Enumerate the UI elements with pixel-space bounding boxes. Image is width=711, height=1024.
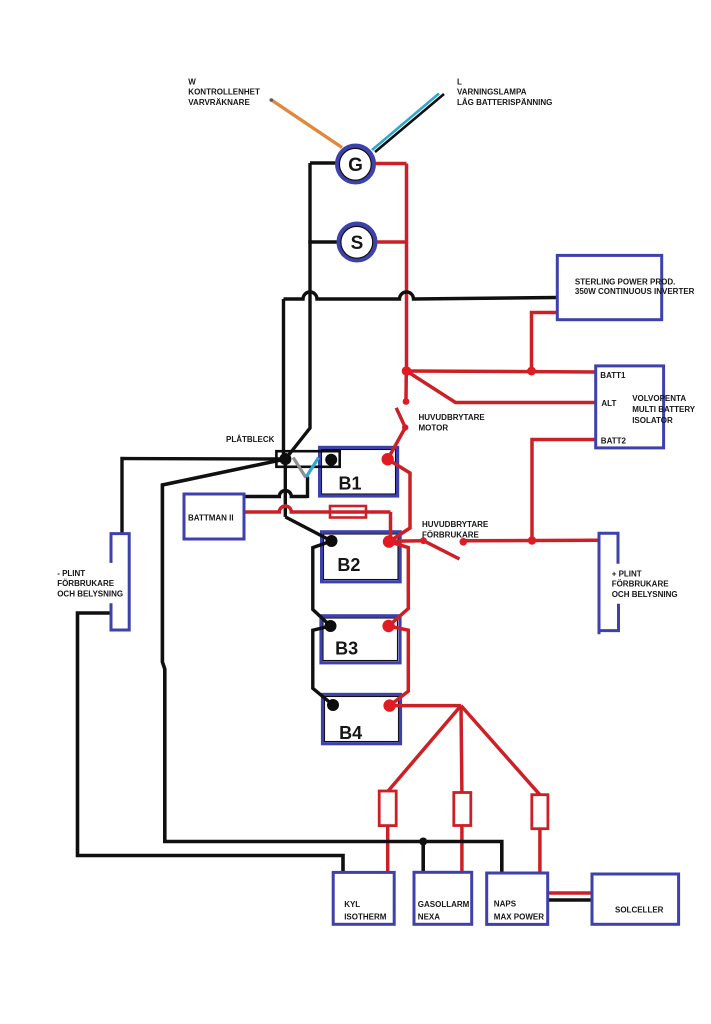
generator G circle [337, 146, 373, 182]
battery B2 box [324, 534, 399, 580]
node blade bend [402, 424, 408, 430]
svg-text:KONTROLLENHET: KONTROLLENHET [188, 88, 260, 97]
wire red BATT2 down to consumer line [532, 440, 596, 541]
wire red B1 plus chain to B2 plus [388, 459, 410, 541]
svg-text:B1: B1 [339, 474, 362, 494]
wire red diagonal to ALT [407, 371, 597, 403]
wire black drop to gasollarm [421, 842, 425, 874]
wire black horizontal to inverter with two hops [284, 292, 558, 299]
svg-text:W: W [188, 77, 196, 86]
terminal dot B4 plus [383, 699, 395, 711]
wire red S right [376, 240, 407, 244]
svg-text:STERLING POWER PROD.: STERLING POWER PROD. [575, 277, 675, 286]
terminal dot B2 plus [383, 535, 395, 547]
svg-text:BATTMAN II: BATTMAN II [188, 514, 234, 523]
wire red B2 plus chain to B3 plus [389, 542, 409, 626]
svg-text:VOLVOPENTA: VOLVOPENTA [632, 394, 686, 403]
node fixed contact motor switch [403, 398, 410, 405]
terminal dot plate left [279, 453, 291, 465]
terminal dot B3 minus [325, 620, 337, 632]
wire black G left to vertical [310, 161, 336, 164]
terminal dot B4 minus [327, 699, 339, 711]
junction dot red inverter drop [527, 367, 536, 376]
terminal dot B3 plus [382, 620, 394, 632]
wire black S left [308, 240, 338, 243]
svg-text:SOLCELLER: SOLCELLER [615, 906, 664, 915]
wire red G right [375, 162, 407, 166]
wire black B3 minus chain to B4 minus [313, 626, 333, 705]
wire red B2 plus to consumer switch [389, 539, 424, 543]
wire red battman to fuse with hop [244, 506, 391, 512]
wire black long left vertical to naps [162, 459, 501, 873]
wire red fan to fuse 1 [388, 706, 461, 792]
svg-text:KYL: KYL [344, 900, 360, 909]
svg-text:B3: B3 [335, 639, 358, 659]
isolator U1 box [596, 366, 664, 448]
svg-text:ALT: ALT [601, 399, 616, 408]
sensor S circle [339, 224, 375, 260]
node switch pivot [420, 537, 427, 544]
svg-text:OCH BELYSNING: OCH BELYSNING [57, 590, 123, 599]
fuse F2 [379, 791, 396, 826]
svg-text:LÅG BATTERISPÄNNING: LÅG BATTERISPÄNNING [457, 98, 552, 107]
plus plint symbol [599, 533, 619, 634]
battman box [184, 494, 244, 539]
wire red fuse line down to B2 plus [389, 512, 393, 541]
wire red fan to fuse 2 [459, 706, 463, 793]
plate PLATBLECK rectangle [276, 451, 339, 467]
black wire varningslampa [375, 94, 444, 152]
wire red B3 plus chain to B4 plus [389, 626, 409, 706]
wire black stub up to blade tip [306, 477, 309, 499]
svg-text:VARNINGSLAMPA: VARNINGSLAMPA [457, 88, 527, 97]
wire black B2 minus chain to B3 minus [313, 541, 332, 626]
svg-text:350W CONTINUOUS INVERTER: 350W CONTINUOUS INVERTER [575, 287, 695, 296]
wire red stub below junction [404, 371, 408, 399]
wire black vertical from G down then diagonal to plate terminal [286, 163, 311, 459]
minus plint symbol [111, 534, 129, 630]
svg-text:ISOTHERM: ISOTHERM [344, 913, 387, 922]
cyan wire varningslampa [372, 94, 439, 151]
svg-text:OCH BELYSNING: OCH BELYSNING [612, 590, 678, 599]
fuse F1 battman line [330, 506, 366, 518]
junction dot red batt2 line [528, 536, 536, 544]
wire red fuse2 to gasollarm [460, 826, 464, 873]
svg-text:MOTOR: MOTOR [419, 424, 449, 433]
wire black minus plint to kyl isotherm [78, 613, 344, 873]
wire red inverter to main line [532, 313, 558, 372]
switch blade HUVUDBRYTARE FORBRUKARE [424, 541, 460, 559]
svg-text:L: L [457, 77, 462, 86]
box NAPS MAX POWER [487, 873, 548, 924]
box GASOLLARM NEXA [414, 872, 472, 924]
wire black plate terminal down to B2 minus [284, 459, 287, 517]
cyan switch blade on plate [306, 458, 318, 478]
svg-text:HUVUDBRYTARE: HUVUDBRYTARE [422, 520, 489, 529]
battery B4 box [325, 697, 399, 742]
wire red main horizontal to BATT1 [407, 371, 597, 372]
terminal dot B2 minus [326, 535, 338, 547]
box KYL ISOTHERM [333, 872, 394, 924]
svg-text:FÖRBRUKARE: FÖRBRUKARE [422, 531, 480, 540]
node fixed contact forbrukare [460, 538, 468, 546]
svg-text:ISOLATOR: ISOLATOR [632, 416, 673, 425]
battery B3 box [323, 618, 398, 661]
terminal dot B1 plus [382, 453, 394, 465]
svg-text:VARVRÄKNARE: VARVRÄKNARE [188, 98, 250, 107]
wire black naps to solceller [548, 898, 592, 901]
svg-text:BATT2: BATT2 [601, 437, 627, 446]
svg-text:NAPS: NAPS [494, 900, 517, 909]
svg-text:MULTI BATTERY: MULTI BATTERY [632, 405, 696, 414]
wire red fan to fuse 3 [461, 706, 540, 795]
orange wire kontrollenhet [272, 100, 343, 148]
junction dot black [419, 838, 427, 846]
orange wire tip cap [270, 98, 274, 102]
terminal dot plate right (B1 minus) [325, 454, 337, 466]
svg-text:BATT1: BATT1 [600, 371, 626, 380]
svg-text:B4: B4 [339, 723, 362, 743]
svg-text:GASOLLARM: GASOLLARM [418, 900, 470, 909]
svg-text:FÖRBRUKARE: FÖRBRUKARE [612, 579, 670, 588]
svg-text:+ PLINT: + PLINT [612, 569, 642, 578]
wire red main vertical from G to junction [405, 164, 409, 372]
switch blade HUVUDBRYTARE MOTOR [388, 408, 406, 459]
svg-text:HUVUDBRYTARE: HUVUDBRYTARE [419, 413, 486, 422]
svg-text:FÖRBRUKARE: FÖRBRUKARE [57, 579, 115, 588]
svg-text:- PLINT: - PLINT [57, 569, 85, 578]
inverter box [557, 255, 661, 319]
svg-text:S: S [351, 233, 364, 254]
svg-text:MAX POWER: MAX POWER [494, 913, 544, 922]
svg-text:NEXA: NEXA [418, 913, 440, 922]
wire black battman top link with hop [244, 491, 308, 497]
box SOLCELLER [592, 874, 679, 924]
svg-text:G: G [348, 155, 363, 176]
wire black left branch down to plate terminal [282, 299, 285, 460]
gray switch blade on plate [293, 458, 306, 478]
fuse F4 [532, 795, 548, 829]
wire black plate terminal to left plint corner [122, 459, 286, 534]
junction dot red main [402, 366, 412, 376]
wire red naps to solceller [548, 891, 592, 895]
fuse F3 [454, 793, 471, 826]
battery B1 box [322, 450, 396, 495]
wire red B4 plus fanout to fuses [390, 704, 461, 708]
wire red fuse1 to kyl [386, 826, 390, 873]
svg-text:B2: B2 [337, 555, 360, 575]
svg-text:PLÅTBLECK: PLÅTBLECK [226, 435, 275, 444]
wire red contact to plus plint [463, 539, 597, 543]
wire red fuse3 to naps [538, 829, 542, 873]
